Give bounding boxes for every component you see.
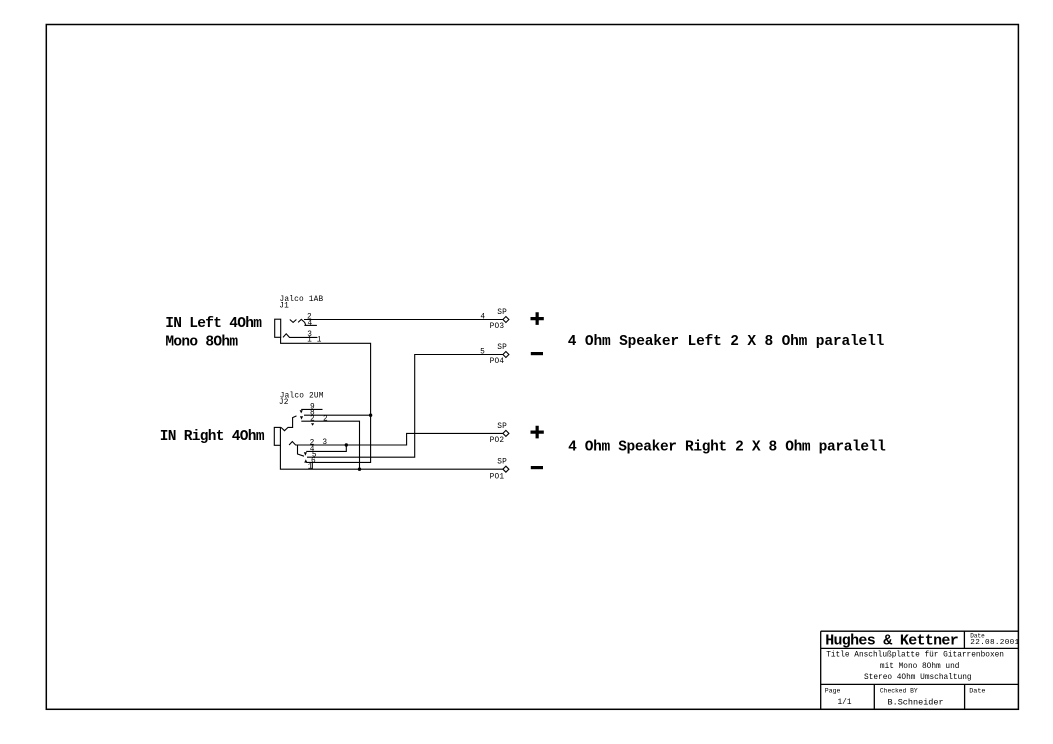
svg-text:Hughes & Kettner: Hughes & Kettner bbox=[825, 633, 958, 650]
svg-text:3: 3 bbox=[322, 439, 327, 447]
svg-text:4: 4 bbox=[480, 313, 485, 321]
svg-text:1/1: 1/1 bbox=[838, 699, 852, 707]
svg-text:PO2: PO2 bbox=[490, 437, 505, 445]
svg-text:SP: SP bbox=[497, 423, 507, 431]
svg-text:PO3: PO3 bbox=[490, 323, 505, 331]
svg-text:5: 5 bbox=[480, 348, 485, 356]
svg-text:PO1: PO1 bbox=[490, 473, 505, 481]
svg-text:SP: SP bbox=[497, 459, 507, 467]
svg-text:Stereo 4Ohm Umschaltung: Stereo 4Ohm Umschaltung bbox=[864, 674, 972, 682]
svg-text:J1: J1 bbox=[279, 303, 289, 311]
svg-text:22.08.2001: 22.08.2001 bbox=[970, 639, 1019, 647]
svg-text:IN Right 4Ohm: IN Right 4Ohm bbox=[160, 429, 265, 445]
svg-text:Date: Date bbox=[969, 688, 985, 696]
svg-text:SP: SP bbox=[497, 309, 507, 317]
svg-text:Mono 8Ohm: Mono 8Ohm bbox=[165, 335, 238, 351]
svg-text:4: 4 bbox=[308, 320, 313, 328]
svg-text:1: 1 bbox=[308, 463, 313, 471]
svg-text:Page: Page bbox=[825, 688, 841, 695]
svg-text:1: 1 bbox=[317, 337, 322, 345]
svg-text:PO4: PO4 bbox=[490, 358, 505, 366]
svg-text:IN Left 4Ohm: IN Left 4Ohm bbox=[165, 316, 262, 332]
svg-text:Title Anschlußplatte für Gitar: Title Anschlußplatte für Gitarrenboxen bbox=[826, 652, 1004, 660]
svg-text:J2: J2 bbox=[279, 399, 289, 407]
svg-text:2: 2 bbox=[310, 416, 315, 424]
svg-text:1: 1 bbox=[307, 337, 312, 345]
svg-text:Checked BY: Checked BY bbox=[880, 688, 918, 695]
svg-text:4 Ohm Speaker Right 2 X 8 Ohm: 4 Ohm Speaker Right 2 X 8 Ohm paralell bbox=[568, 439, 886, 455]
svg-text:2: 2 bbox=[323, 416, 328, 424]
svg-text:4 Ohm Speaker Left 2 X 8 Ohm p: 4 Ohm Speaker Left 2 X 8 Ohm paralell bbox=[568, 334, 885, 350]
svg-text:SP: SP bbox=[497, 344, 507, 352]
svg-text:B.Schneider: B.Schneider bbox=[888, 697, 944, 707]
svg-text:mit Mono 8Ohm und: mit Mono 8Ohm und bbox=[880, 663, 960, 671]
